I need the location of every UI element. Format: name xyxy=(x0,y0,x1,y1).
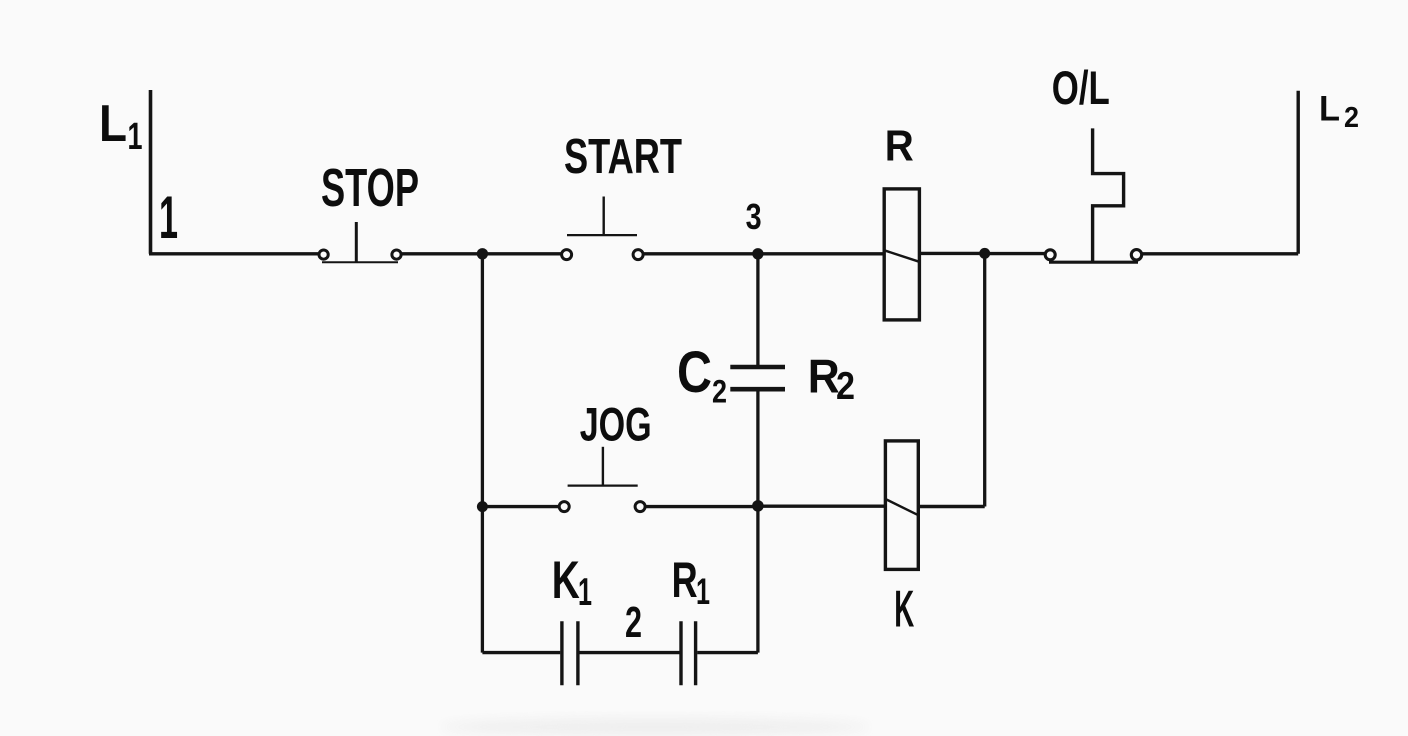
wire O/L to rail L2 xyxy=(1142,252,1299,255)
svg-text:JOG: JOG xyxy=(580,398,652,451)
bottom wire left segment xyxy=(482,651,560,654)
junction node B xyxy=(979,248,990,259)
svg-text:C: C xyxy=(677,340,712,405)
pushbutton START (NO) xyxy=(562,197,644,260)
svg-text:2: 2 xyxy=(1344,102,1359,134)
wire L1 to STOP xyxy=(149,252,319,255)
overload contact O/L xyxy=(1045,128,1142,262)
junction node D xyxy=(477,501,488,512)
bottom wire middle segment xyxy=(579,651,679,654)
label R1 xyxy=(672,552,710,612)
svg-text:START: START xyxy=(564,130,682,184)
wire node D to JOG xyxy=(482,505,559,508)
pushbutton STOP (NC) xyxy=(319,222,401,262)
junction node 3 xyxy=(752,248,763,259)
wire coil R to node B xyxy=(919,252,984,255)
svg-text:STOP: STOP xyxy=(321,158,419,218)
svg-text:R: R xyxy=(808,350,840,403)
coil R xyxy=(884,189,919,320)
label K1 xyxy=(552,551,592,614)
svg-text:K: K xyxy=(552,551,580,610)
contact R1 xyxy=(681,621,696,685)
wire node 3 down to capacitor C2 xyxy=(756,254,759,367)
rail L2 xyxy=(1296,91,1299,254)
bottom wire right segment xyxy=(697,651,758,654)
svg-text:2: 2 xyxy=(712,374,727,410)
contact K1 xyxy=(562,621,578,685)
svg-text:L: L xyxy=(1319,90,1340,129)
wire JOG to node E xyxy=(645,505,758,508)
svg-text:R: R xyxy=(885,121,914,170)
wire right column up to node B xyxy=(983,253,986,506)
wire coil K to right column xyxy=(918,505,984,508)
svg-text:2: 2 xyxy=(625,598,642,647)
svg-text:1: 1 xyxy=(578,571,592,614)
svg-text:2: 2 xyxy=(836,365,855,408)
wire node 3 to coil R xyxy=(758,252,884,255)
wire node A down to jog rung and bottom rung xyxy=(481,254,484,653)
junction node E xyxy=(752,500,764,512)
capacitor C2 xyxy=(730,367,785,389)
svg-text:3: 3 xyxy=(746,196,762,237)
svg-text:1: 1 xyxy=(128,116,143,158)
rail L1 xyxy=(149,90,153,254)
wire node A to START xyxy=(482,252,561,255)
wire node B to O/L xyxy=(985,252,1045,255)
label R2 xyxy=(808,350,855,408)
wire STOP to node A xyxy=(401,252,482,255)
smudge artifact bottom xyxy=(440,719,870,735)
svg-text:R: R xyxy=(672,552,698,608)
label C2 xyxy=(677,340,727,410)
wire node E to coil K xyxy=(758,505,886,508)
junction node A xyxy=(477,248,488,259)
wire START to node 3 xyxy=(643,252,758,255)
svg-text:L: L xyxy=(99,95,127,153)
coil K xyxy=(885,441,918,570)
label L1 xyxy=(99,95,143,158)
svg-text:K: K xyxy=(894,580,914,638)
pushbutton JOG (NO) xyxy=(559,447,645,512)
svg-text:1: 1 xyxy=(696,571,710,612)
wire C2 down to node E and bottom rung xyxy=(756,389,759,652)
svg-text:O/L: O/L xyxy=(1052,61,1110,114)
svg-text:1: 1 xyxy=(159,184,178,251)
label L2 xyxy=(1319,90,1359,134)
